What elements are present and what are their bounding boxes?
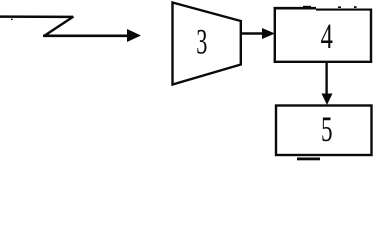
block 3 trapezoid (173, 3, 241, 85)
speck below input line (11, 19, 13, 20)
block 4 rectangle: left edge (274, 7, 276, 63)
block 4 rectangle: right edge (370, 9, 372, 63)
block 5 rectangle (276, 106, 372, 156)
wire: input zigzag bottom segment (43, 34, 129, 37)
arrowhead: into block 5 (322, 94, 333, 106)
block 4 rectangle: bottom edge (274, 61, 373, 63)
wire: input zigzag diagonal (44, 17, 74, 37)
svg-text:5: 5 (321, 109, 333, 149)
wire: input zigzag top segment (0, 15, 73, 18)
ticks above block 4 top edge (303, 6, 311, 8)
scan smudge below block 5 (297, 158, 320, 161)
arrowhead: input arrow (127, 29, 141, 42)
arrowhead: into block 4 (262, 28, 275, 39)
svg-text:3: 3 (196, 22, 207, 62)
wire: block3 to block4 (240, 32, 264, 34)
block 4 rectangle: top edge right part (316, 9, 372, 11)
block 4 rectangle: top edge left part (274, 7, 316, 10)
svg-text:4: 4 (321, 16, 333, 56)
wire: block4 to block5 (325, 62, 327, 97)
